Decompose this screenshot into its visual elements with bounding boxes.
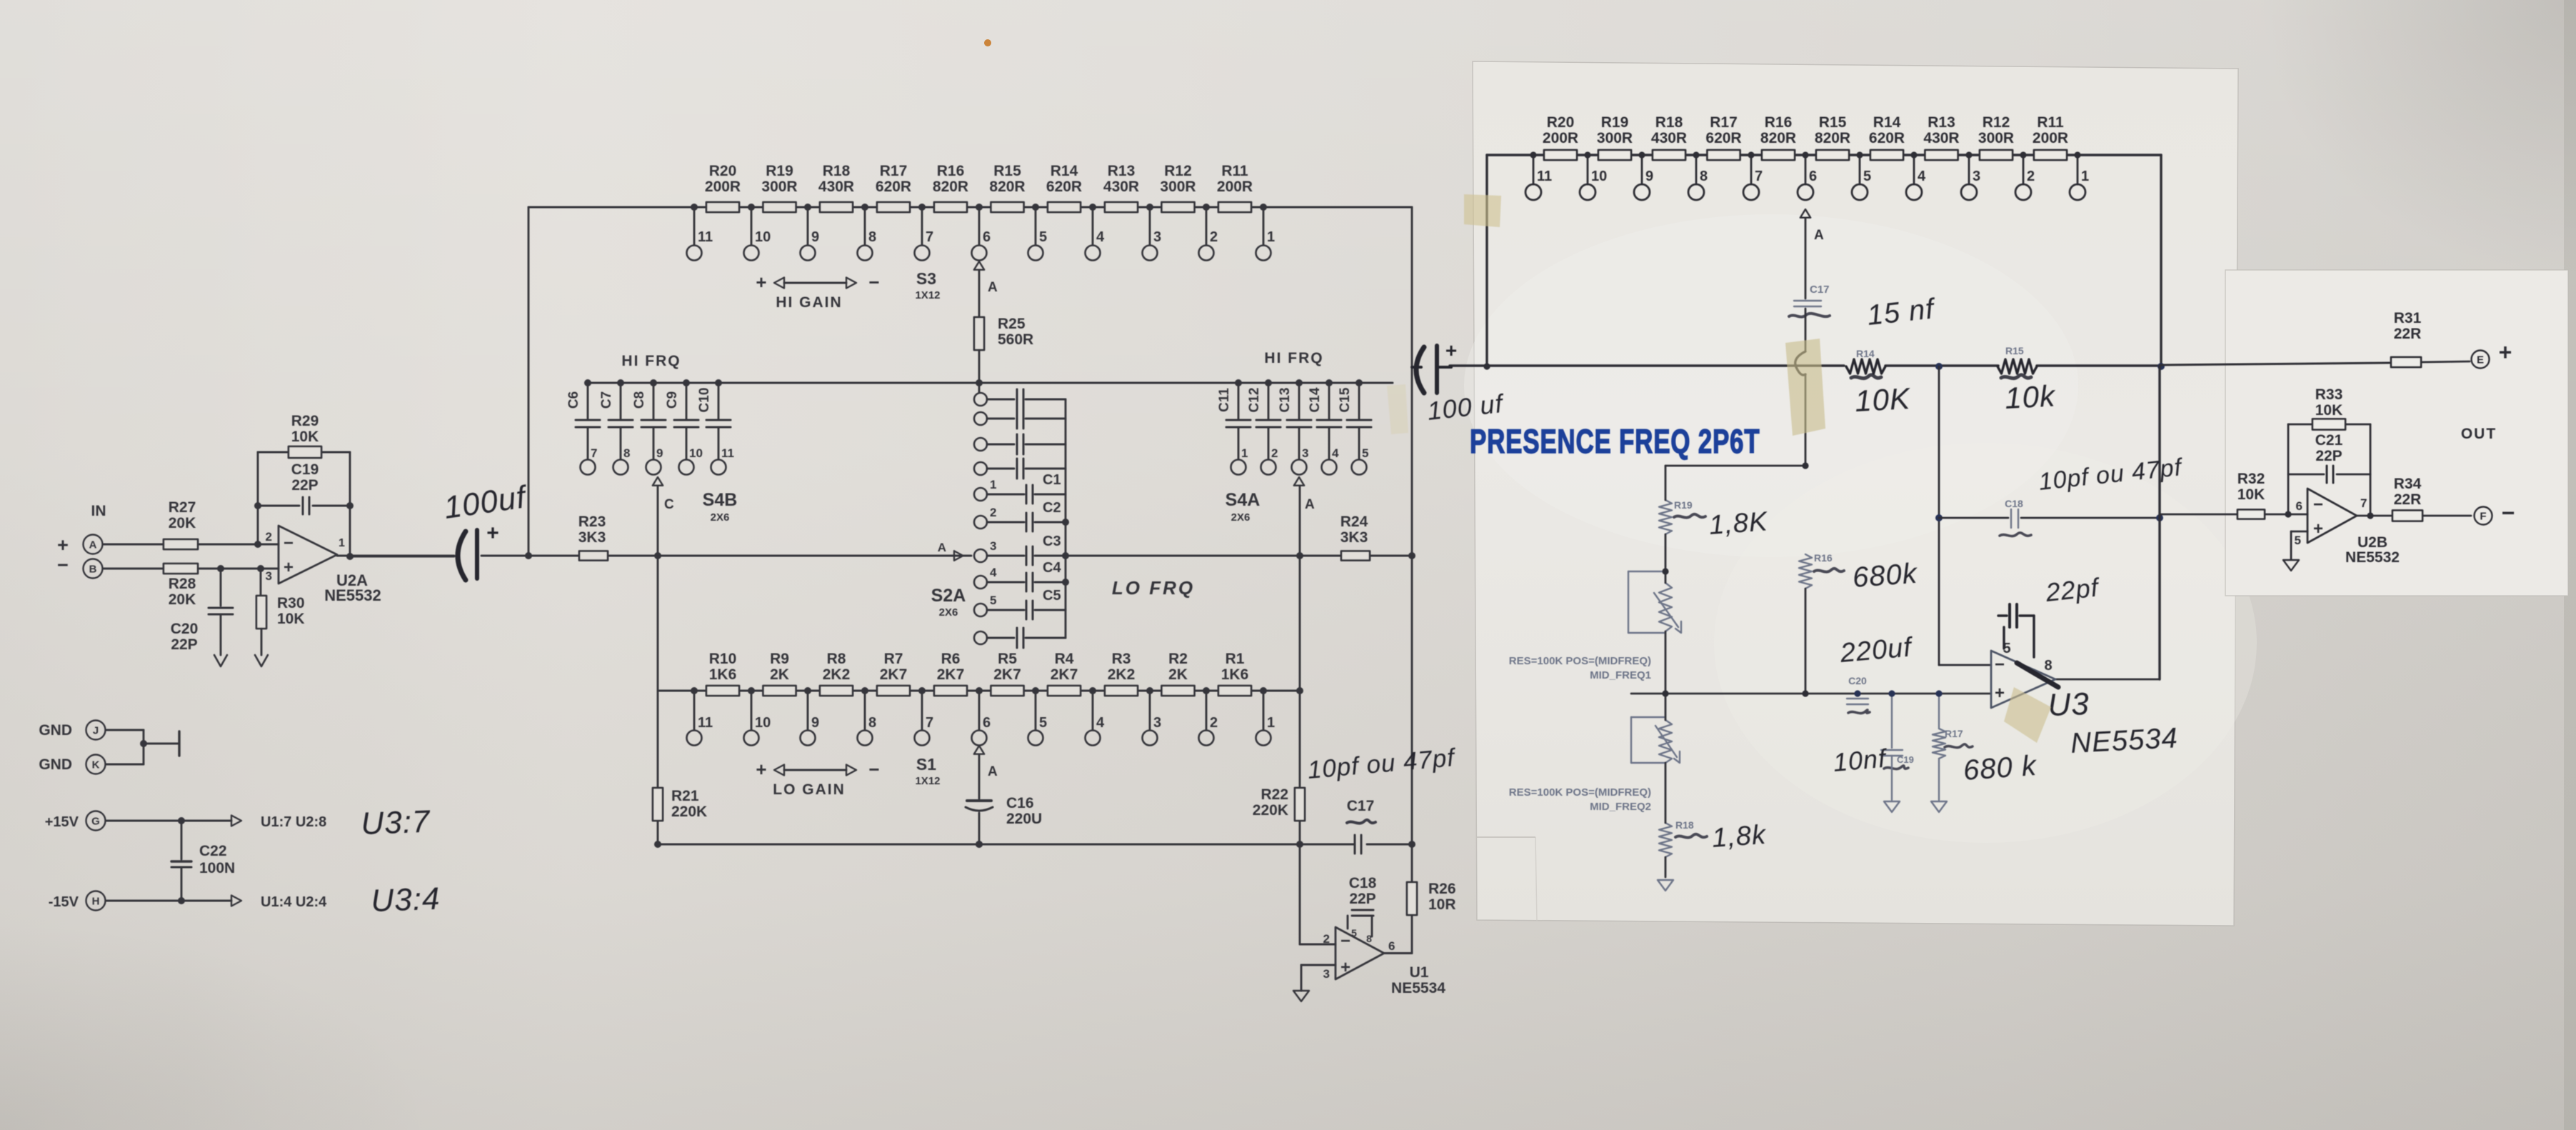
svg-text:C20: C20 xyxy=(171,621,199,637)
svg-text:430R: 430R xyxy=(818,179,854,195)
svg-text:R15: R15 xyxy=(993,163,1021,179)
svg-text:R11: R11 xyxy=(1221,163,1248,179)
svg-text:−: − xyxy=(2502,500,2515,526)
svg-text:1,8K: 1,8K xyxy=(1708,506,1770,541)
svg-text:C6: C6 xyxy=(566,391,581,409)
svg-text:4: 4 xyxy=(1918,169,1926,184)
svg-text:1: 1 xyxy=(1267,715,1275,731)
svg-text:3: 3 xyxy=(1323,967,1330,981)
svg-text:GND: GND xyxy=(39,756,72,773)
svg-text:10: 10 xyxy=(1591,169,1607,184)
svg-text:−: − xyxy=(284,534,294,553)
svg-text:S1: S1 xyxy=(916,755,936,774)
svg-text:220uf: 220uf xyxy=(1838,632,1915,669)
svg-text:LO FRQ: LO FRQ xyxy=(1112,577,1195,599)
svg-text:R18: R18 xyxy=(1655,114,1683,131)
svg-text:R6: R6 xyxy=(941,651,961,667)
svg-text:R15: R15 xyxy=(1819,114,1847,131)
svg-text:2K: 2K xyxy=(770,666,789,683)
svg-text:R17: R17 xyxy=(880,163,908,179)
svg-text:C5: C5 xyxy=(1043,588,1061,604)
svg-text:200R: 200R xyxy=(2033,130,2068,146)
svg-text:R11: R11 xyxy=(2037,114,2064,131)
svg-text:11: 11 xyxy=(698,229,713,245)
svg-text:300R: 300R xyxy=(1597,130,1633,146)
svg-text:8: 8 xyxy=(868,715,876,731)
svg-text:R28: R28 xyxy=(169,576,196,592)
svg-text:3: 3 xyxy=(1153,229,1161,245)
svg-text:U1:7 U2:8: U1:7 U2:8 xyxy=(261,814,326,830)
svg-text:R7: R7 xyxy=(884,651,903,667)
svg-text:RES=100K POS=(MIDFREQ): RES=100K POS=(MIDFREQ) xyxy=(1509,655,1651,667)
svg-text:10: 10 xyxy=(689,446,703,460)
svg-text:8: 8 xyxy=(1366,933,1372,944)
svg-text:220K: 220K xyxy=(1253,802,1288,819)
svg-text:300R: 300R xyxy=(761,179,797,195)
svg-text:7: 7 xyxy=(926,715,933,731)
svg-text:R29: R29 xyxy=(291,413,319,429)
svg-text:6: 6 xyxy=(1388,939,1395,953)
svg-text:5: 5 xyxy=(2295,534,2301,547)
svg-text:22R: 22R xyxy=(2394,326,2422,342)
svg-text:8: 8 xyxy=(2044,658,2052,674)
svg-text:9: 9 xyxy=(811,229,819,245)
svg-text:200R: 200R xyxy=(1217,179,1253,195)
svg-text:NE5534: NE5534 xyxy=(2070,722,2179,759)
svg-text:C20: C20 xyxy=(1848,675,1867,686)
svg-text:HI FRQ: HI FRQ xyxy=(621,353,681,369)
svg-text:11: 11 xyxy=(1537,169,1552,184)
svg-text:10K: 10K xyxy=(2315,402,2343,419)
svg-text:10K: 10K xyxy=(277,611,305,627)
svg-text:−: − xyxy=(868,759,879,780)
svg-text:R33: R33 xyxy=(2315,386,2343,403)
svg-text:300R: 300R xyxy=(1160,179,1196,195)
svg-text:2K2: 2K2 xyxy=(823,666,851,683)
svg-text:3: 3 xyxy=(1973,169,1980,184)
svg-text:F: F xyxy=(2480,511,2486,523)
svg-text:2K7: 2K7 xyxy=(1051,666,1078,683)
svg-text:R31: R31 xyxy=(2394,310,2422,326)
svg-text:C4: C4 xyxy=(1043,560,1061,576)
svg-text:6: 6 xyxy=(1809,169,1817,184)
svg-text:GND: GND xyxy=(39,722,72,739)
svg-text:R2: R2 xyxy=(1168,651,1188,667)
svg-text:2: 2 xyxy=(2027,169,2035,184)
svg-text:C17: C17 xyxy=(1810,284,1830,296)
svg-text:B: B xyxy=(89,564,97,576)
svg-text:10K: 10K xyxy=(1854,381,1912,418)
svg-text:R27: R27 xyxy=(169,499,196,516)
svg-text:NE5532: NE5532 xyxy=(324,586,381,604)
svg-text:C22: C22 xyxy=(199,843,227,859)
svg-text:A: A xyxy=(1305,497,1315,512)
svg-text:1: 1 xyxy=(339,537,345,549)
svg-text:1: 1 xyxy=(990,478,996,491)
svg-text:−: − xyxy=(1340,931,1350,951)
svg-text:1K6: 1K6 xyxy=(709,666,737,683)
svg-text:R8: R8 xyxy=(827,651,846,667)
svg-text:1: 1 xyxy=(1241,446,1248,460)
svg-text:2K7: 2K7 xyxy=(880,666,908,683)
svg-text:1,8k: 1,8k xyxy=(1711,820,1768,854)
svg-text:HI FRQ: HI FRQ xyxy=(1264,350,1323,366)
svg-text:2: 2 xyxy=(266,530,272,544)
svg-text:LO GAIN: LO GAIN xyxy=(773,781,846,798)
svg-text:NE5534: NE5534 xyxy=(1391,980,1445,996)
svg-text:+: + xyxy=(284,558,294,577)
svg-text:2X6: 2X6 xyxy=(939,606,958,619)
svg-text:R18: R18 xyxy=(1675,819,1694,831)
svg-text:R5: R5 xyxy=(998,651,1017,667)
svg-text:7: 7 xyxy=(2360,496,2367,510)
svg-text:R24: R24 xyxy=(1340,514,1368,530)
svg-text:+: + xyxy=(2313,519,2323,539)
svg-text:+: + xyxy=(2499,339,2512,365)
svg-text:NE5532: NE5532 xyxy=(2345,549,2400,566)
svg-text:R4: R4 xyxy=(1055,651,1074,667)
svg-text:R22: R22 xyxy=(1261,786,1288,803)
svg-text:C18: C18 xyxy=(2005,498,2023,509)
svg-text:C7: C7 xyxy=(599,391,614,409)
svg-text:U3:7: U3:7 xyxy=(361,804,431,841)
svg-text:8: 8 xyxy=(1700,169,1708,184)
svg-text:5: 5 xyxy=(1362,446,1368,460)
svg-text:+15V: +15V xyxy=(45,814,79,830)
svg-text:5: 5 xyxy=(1351,927,1357,939)
svg-text:S4B: S4B xyxy=(703,490,738,510)
svg-text:R19: R19 xyxy=(1674,499,1693,511)
svg-text:620R: 620R xyxy=(1869,130,1905,146)
svg-text:R17: R17 xyxy=(1945,728,1963,739)
svg-text:R16: R16 xyxy=(1814,552,1833,564)
svg-text:620R: 620R xyxy=(876,179,911,195)
svg-text:1: 1 xyxy=(2081,169,2089,184)
svg-text:820R: 820R xyxy=(933,179,968,195)
svg-text:+: + xyxy=(1340,958,1350,977)
svg-text:6: 6 xyxy=(2296,499,2302,513)
svg-text:−: − xyxy=(868,271,879,293)
svg-text:3: 3 xyxy=(1302,446,1308,460)
svg-text:3K3: 3K3 xyxy=(578,529,606,546)
svg-text:R16: R16 xyxy=(937,163,965,179)
svg-text:9: 9 xyxy=(811,715,819,731)
svg-text:U2B: U2B xyxy=(2357,534,2387,551)
svg-text:R1: R1 xyxy=(1226,651,1245,667)
svg-text:11: 11 xyxy=(698,715,713,731)
svg-text:2K2: 2K2 xyxy=(1108,666,1136,683)
svg-text:+: + xyxy=(1445,339,1457,361)
svg-text:R13: R13 xyxy=(1108,163,1136,179)
svg-text:9: 9 xyxy=(1645,169,1653,184)
svg-text:E: E xyxy=(2477,354,2484,366)
svg-text:220K: 220K xyxy=(671,804,707,820)
svg-text:C19: C19 xyxy=(1897,754,1914,765)
svg-text:8: 8 xyxy=(868,229,876,245)
svg-text:C17: C17 xyxy=(1347,798,1375,814)
svg-text:4: 4 xyxy=(1096,229,1105,245)
svg-text:S2A: S2A xyxy=(931,586,966,606)
svg-text:8: 8 xyxy=(623,446,630,460)
svg-text:2: 2 xyxy=(1271,446,1278,460)
svg-text:11: 11 xyxy=(721,446,734,460)
svg-text:200R: 200R xyxy=(1543,130,1578,146)
svg-text:H: H xyxy=(92,896,100,908)
svg-text:5: 5 xyxy=(990,594,996,607)
svg-text:220U: 220U xyxy=(1006,811,1042,827)
svg-text:2K7: 2K7 xyxy=(993,666,1021,683)
svg-text:10: 10 xyxy=(755,715,771,731)
svg-text:1K6: 1K6 xyxy=(1221,666,1249,683)
svg-text:430R: 430R xyxy=(1103,179,1139,195)
svg-text:680 k: 680 k xyxy=(1963,750,2039,786)
svg-text:10R: 10R xyxy=(1428,896,1456,913)
svg-text:820R: 820R xyxy=(1760,130,1796,146)
svg-text:C1: C1 xyxy=(1043,472,1061,488)
svg-text:R14: R14 xyxy=(1856,348,1875,359)
svg-text:C19: C19 xyxy=(291,461,319,478)
svg-text:R32: R32 xyxy=(2237,471,2265,487)
svg-text:+: + xyxy=(756,271,766,293)
svg-text:C: C xyxy=(664,497,674,512)
svg-text:2K: 2K xyxy=(1168,666,1188,683)
svg-text:R10: R10 xyxy=(709,651,737,667)
svg-text:K: K xyxy=(92,759,100,771)
svg-text:2K7: 2K7 xyxy=(937,666,965,683)
svg-text:6: 6 xyxy=(983,229,991,245)
svg-text:C8: C8 xyxy=(632,391,647,409)
svg-text:7: 7 xyxy=(591,446,597,460)
svg-text:4: 4 xyxy=(1096,715,1105,731)
svg-text:+: + xyxy=(756,759,766,780)
svg-text:+: + xyxy=(1995,684,2005,703)
svg-text:10K: 10K xyxy=(2237,486,2265,503)
svg-text:−: − xyxy=(57,554,69,576)
svg-text:R25: R25 xyxy=(998,316,1026,332)
svg-text:4: 4 xyxy=(990,566,997,579)
svg-text:+: + xyxy=(486,521,499,545)
svg-text:560R: 560R xyxy=(998,331,1033,348)
svg-text:7: 7 xyxy=(926,229,933,245)
svg-text:R12: R12 xyxy=(1983,114,2010,131)
svg-text:C12: C12 xyxy=(1247,388,1262,413)
svg-text:IN: IN xyxy=(91,503,106,519)
svg-text:A: A xyxy=(1814,228,1824,243)
svg-text:C9: C9 xyxy=(665,391,680,409)
svg-text:R15: R15 xyxy=(2005,345,2024,356)
svg-text:820R: 820R xyxy=(989,179,1025,195)
svg-text:R30: R30 xyxy=(277,595,305,611)
svg-text:3: 3 xyxy=(1153,715,1161,731)
svg-text:-15V: -15V xyxy=(49,894,79,910)
svg-text:C11: C11 xyxy=(1217,388,1232,412)
svg-text:+: + xyxy=(57,534,69,556)
svg-text:430R: 430R xyxy=(1923,130,1959,146)
svg-text:22R: 22R xyxy=(2394,491,2422,508)
svg-text:680k: 680k xyxy=(1852,558,1920,594)
svg-text:S3: S3 xyxy=(916,269,936,288)
svg-text:−: − xyxy=(2313,495,2323,514)
svg-text:C3: C3 xyxy=(1043,534,1061,549)
svg-text:2: 2 xyxy=(1210,229,1218,245)
svg-text:100N: 100N xyxy=(199,860,235,876)
svg-text:22P: 22P xyxy=(2315,448,2342,464)
svg-text:U1:4 U2:4: U1:4 U2:4 xyxy=(261,894,327,910)
svg-text:R12: R12 xyxy=(1164,163,1192,179)
svg-text:22P: 22P xyxy=(291,477,318,494)
svg-text:PRESENCE FREQ 2P6T: PRESENCE FREQ 2P6T xyxy=(1470,422,1760,460)
svg-text:C14: C14 xyxy=(1308,387,1323,412)
svg-text:R19: R19 xyxy=(1601,114,1629,131)
svg-text:R14: R14 xyxy=(1873,114,1901,131)
svg-text:2: 2 xyxy=(1210,715,1218,731)
svg-text:C2: C2 xyxy=(1043,500,1061,516)
svg-text:430R: 430R xyxy=(1651,130,1687,146)
svg-text:5: 5 xyxy=(1039,715,1047,731)
svg-text:820R: 820R xyxy=(1815,130,1850,146)
svg-text:R19: R19 xyxy=(766,163,793,179)
svg-text:1X12: 1X12 xyxy=(915,775,940,787)
svg-text:200R: 200R xyxy=(705,179,741,195)
svg-text:7: 7 xyxy=(1755,169,1763,184)
svg-text:5: 5 xyxy=(1863,169,1871,184)
svg-text:A: A xyxy=(89,539,97,551)
svg-text:3: 3 xyxy=(990,539,996,553)
svg-text:5: 5 xyxy=(1039,229,1047,245)
svg-text:6: 6 xyxy=(983,715,991,731)
svg-text:620R: 620R xyxy=(1046,179,1082,195)
svg-text:R26: R26 xyxy=(1428,881,1456,897)
svg-text:A: A xyxy=(988,764,998,779)
svg-text:9: 9 xyxy=(656,446,663,460)
svg-text:RES=100K POS=(MIDFREQ): RES=100K POS=(MIDFREQ) xyxy=(1509,786,1651,799)
svg-text:300R: 300R xyxy=(1978,130,2014,146)
svg-text:R9: R9 xyxy=(770,651,789,667)
svg-text:R21: R21 xyxy=(671,788,699,804)
svg-text:R18: R18 xyxy=(823,163,851,179)
svg-text:10K: 10K xyxy=(291,429,319,445)
svg-text:R20: R20 xyxy=(1547,114,1575,131)
svg-text:C16: C16 xyxy=(1006,795,1034,811)
svg-text:10k: 10k xyxy=(2004,379,2057,415)
svg-text:A: A xyxy=(988,280,998,295)
svg-text:R20: R20 xyxy=(709,163,737,179)
svg-text:2X6: 2X6 xyxy=(711,511,730,524)
svg-text:22P: 22P xyxy=(171,636,197,653)
svg-text:R17: R17 xyxy=(1710,114,1738,131)
svg-text:R13: R13 xyxy=(1928,114,1955,131)
svg-text:10nf: 10nf xyxy=(1832,743,1889,777)
svg-text:1X12: 1X12 xyxy=(915,289,940,301)
svg-text:2X6: 2X6 xyxy=(1231,511,1251,524)
svg-text:2: 2 xyxy=(990,506,996,519)
svg-text:620R: 620R xyxy=(1705,130,1741,146)
svg-text:C18: C18 xyxy=(1349,875,1377,891)
svg-text:R16: R16 xyxy=(1765,114,1793,131)
svg-text:R14: R14 xyxy=(1051,163,1078,179)
svg-text:HI GAIN: HI GAIN xyxy=(776,294,842,311)
svg-text:10: 10 xyxy=(755,229,771,245)
svg-text:G: G xyxy=(91,816,100,828)
svg-text:−: − xyxy=(1995,655,2005,674)
svg-text:OUT: OUT xyxy=(2461,426,2497,442)
svg-text:22P: 22P xyxy=(1349,891,1375,907)
svg-text:C13: C13 xyxy=(1278,388,1293,413)
svg-text:S4A: S4A xyxy=(1226,490,1261,510)
svg-text:4: 4 xyxy=(1332,446,1339,460)
svg-text:C15: C15 xyxy=(1338,387,1353,412)
svg-text:R23: R23 xyxy=(578,514,606,530)
svg-text:20K: 20K xyxy=(169,515,196,531)
svg-text:20K: 20K xyxy=(169,591,196,608)
svg-text:C21: C21 xyxy=(2315,432,2343,449)
svg-text:J: J xyxy=(93,725,99,737)
svg-text:22pf: 22pf xyxy=(2044,572,2103,607)
svg-text:MID_FREQ2: MID_FREQ2 xyxy=(1590,801,1651,813)
svg-text:3K3: 3K3 xyxy=(1340,529,1368,546)
svg-text:R34: R34 xyxy=(2394,476,2422,492)
svg-text:3: 3 xyxy=(266,569,272,583)
svg-text:C10: C10 xyxy=(697,388,712,413)
svg-text:MID_FREQ1: MID_FREQ1 xyxy=(1590,669,1651,681)
svg-text:A: A xyxy=(938,541,946,554)
svg-text:U3: U3 xyxy=(2048,686,2090,723)
svg-text:R3: R3 xyxy=(1112,651,1131,667)
svg-text:U3:4: U3:4 xyxy=(371,881,441,919)
svg-text:1: 1 xyxy=(1267,229,1275,245)
svg-text:U1: U1 xyxy=(1410,964,1429,981)
